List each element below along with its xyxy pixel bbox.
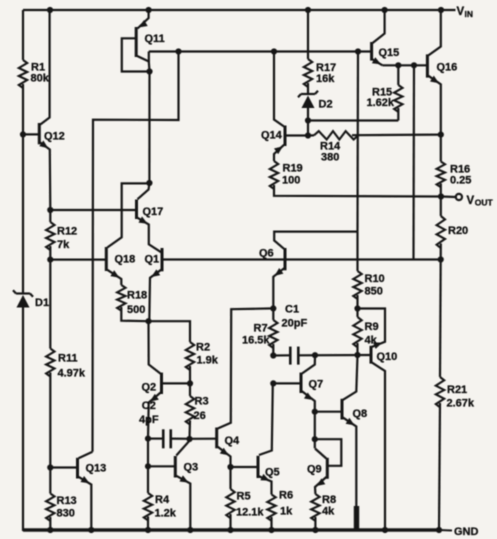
svg-text:R19: R19	[283, 163, 303, 175]
svg-text:1.62k: 1.62k	[367, 97, 395, 109]
svg-text:4pF: 4pF	[139, 414, 159, 426]
svg-text:Q17: Q17	[143, 206, 164, 218]
svg-text:R12: R12	[57, 226, 77, 238]
svg-text:R13: R13	[57, 495, 77, 507]
svg-text:Q14: Q14	[261, 130, 283, 142]
svg-text:R8: R8	[322, 494, 336, 506]
svg-text:500: 500	[127, 304, 145, 316]
svg-text:R6: R6	[279, 490, 293, 502]
svg-text:2.67k: 2.67k	[447, 398, 475, 410]
svg-text:R7: R7	[254, 323, 268, 335]
svg-text:Q11: Q11	[145, 33, 165, 45]
svg-text:D2: D2	[319, 99, 333, 111]
svg-text:1k: 1k	[280, 506, 293, 518]
svg-text:R9: R9	[365, 321, 379, 333]
svg-text:Q16: Q16	[437, 62, 458, 74]
svg-text:4.97k: 4.97k	[58, 368, 86, 380]
svg-text:Q5: Q5	[265, 467, 280, 479]
svg-text:Q15: Q15	[379, 47, 400, 59]
svg-text:16.5k: 16.5k	[242, 335, 270, 347]
svg-text:4k: 4k	[365, 335, 378, 347]
svg-text:Q18: Q18	[115, 254, 136, 266]
svg-text:C2: C2	[142, 400, 156, 412]
svg-text:V: V	[467, 195, 475, 207]
svg-text:Q9: Q9	[307, 464, 322, 476]
svg-text:1.2k: 1.2k	[155, 508, 177, 520]
svg-text:D1: D1	[35, 297, 49, 309]
svg-text:850: 850	[365, 286, 383, 298]
svg-text:R3: R3	[195, 396, 209, 408]
svg-text:R18: R18	[127, 290, 147, 302]
svg-text:IN: IN	[465, 9, 474, 19]
svg-text:0.25: 0.25	[450, 175, 471, 187]
svg-text:Q3: Q3	[184, 462, 199, 474]
svg-text:Q1: Q1	[145, 254, 160, 266]
svg-text:830: 830	[57, 508, 75, 520]
svg-text:GND: GND	[454, 526, 479, 538]
svg-text:V: V	[457, 6, 465, 18]
svg-text:20pF: 20pF	[282, 318, 308, 330]
svg-text:4k: 4k	[322, 506, 335, 518]
svg-text:Q4: Q4	[225, 435, 241, 447]
svg-text:R10: R10	[365, 273, 385, 285]
svg-text:Q8: Q8	[353, 408, 368, 420]
svg-text:380: 380	[321, 152, 339, 164]
svg-text:Q6: Q6	[259, 248, 274, 260]
svg-text:Q13: Q13	[86, 463, 107, 475]
svg-text:1.9k: 1.9k	[197, 355, 219, 367]
svg-text:Q10: Q10	[377, 351, 398, 363]
svg-text:Q2: Q2	[142, 382, 157, 394]
svg-text:80k: 80k	[31, 73, 50, 85]
svg-text:R5: R5	[237, 491, 251, 503]
svg-text:R2: R2	[196, 342, 210, 354]
svg-text:16k: 16k	[316, 73, 335, 85]
svg-text:26: 26	[194, 410, 206, 422]
svg-text:R20: R20	[448, 225, 468, 237]
svg-text:OUT: OUT	[475, 198, 494, 208]
svg-text:C1: C1	[285, 304, 299, 316]
svg-text:Q12: Q12	[44, 131, 65, 143]
svg-text:R4: R4	[155, 494, 170, 506]
svg-text:R11: R11	[58, 353, 78, 365]
svg-text:7k: 7k	[57, 239, 70, 251]
svg-text:100: 100	[282, 175, 300, 187]
svg-text:R21: R21	[447, 384, 467, 396]
svg-text:12.1k: 12.1k	[236, 507, 264, 519]
svg-text:Q7: Q7	[309, 379, 324, 391]
